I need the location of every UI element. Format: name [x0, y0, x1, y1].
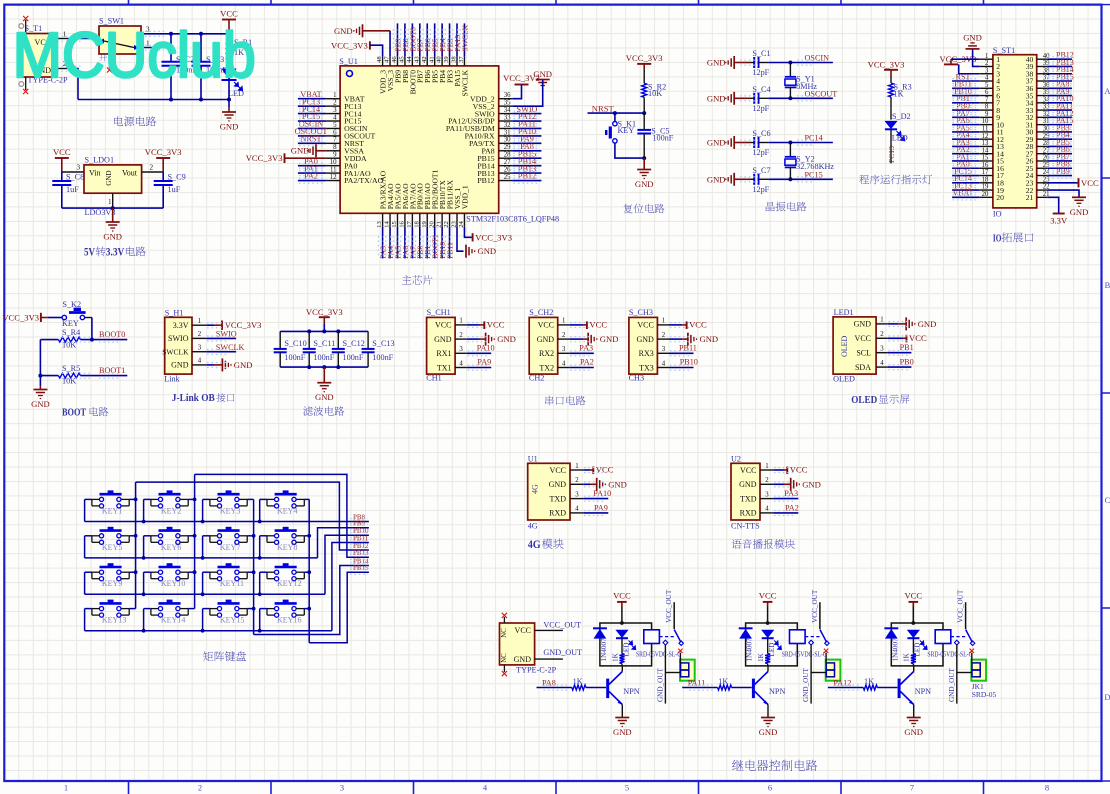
compile mask dots: [57, 29, 1072, 690]
net label OSCIN: [805, 54, 830, 63]
svg-text:1: 1: [575, 463, 578, 470]
svg-text:VCC_3V3: VCC_3V3: [2, 312, 39, 322]
LED relay 2: [761, 630, 781, 657]
H1 pins: [192, 318, 206, 365]
relay coil loop wire 3: [891, 621, 943, 666]
keypad bus wire PB12 col1: [136, 482, 369, 550]
net label BOOT0: [99, 330, 125, 339]
MCU top pins: [383, 57, 465, 66]
key KEY13: [92, 601, 129, 625]
svg-text:SWCLK: SWCLK: [162, 348, 189, 357]
filter bottom rail wire: [280, 365, 368, 369]
key KEY7: [210, 528, 247, 552]
svg-text:1uF: 1uF: [168, 185, 181, 194]
key KEY6: [151, 528, 188, 552]
svg-text:1N4007: 1N4007: [891, 638, 899, 662]
wire NRST: [588, 111, 647, 115]
svg-text:VCC_OUT: VCC_OUT: [957, 589, 965, 623]
title relay control circuit: [732, 760, 817, 771]
svg-text:30: 30: [504, 137, 511, 144]
MCUclub watermark: [13, 19, 256, 91]
wire H1 SWCLK: [206, 343, 244, 352]
svg-text:1K: 1K: [573, 677, 583, 686]
power VCC at ST1 pin 23: [1047, 178, 1099, 188]
capacitor S_C12 100nF: [332, 331, 365, 367]
svg-text:3: 3: [562, 346, 566, 353]
MCU left pin names: [344, 94, 384, 185]
svg-text:VCC_3V3: VCC_3V3: [306, 307, 343, 317]
svg-text:GND_OUT: GND_OUT: [656, 667, 664, 702]
net label NRST: [592, 103, 615, 113]
wire emitter to GND relay 1: [621, 705, 623, 718]
T1 pin stubs: [19, 16, 28, 94]
svg-text:S_R4: S_R4: [62, 328, 80, 337]
relay coil loop wire 2: [746, 621, 798, 666]
title voice module: [731, 539, 794, 549]
svg-text:B: B: [1105, 280, 1110, 290]
MCU bottom pins: [383, 213, 465, 227]
svg-text:RX3: RX3: [639, 349, 654, 358]
svg-text:GND: GND: [105, 170, 113, 185]
svg-text:VCC_3V3: VCC_3V3: [626, 53, 663, 63]
svg-text:GND: GND: [608, 479, 627, 489]
wire emitter to GND relay 2: [767, 705, 769, 718]
relay switch contact 2: [805, 630, 829, 654]
LDO ground pin wire: [108, 193, 113, 208]
svg-text:KEY: KEY: [618, 126, 635, 135]
power VCC_3V3 reset: [626, 53, 663, 70]
svg-text:4: 4: [880, 360, 884, 367]
wire GND_OUT relay 3: [948, 645, 972, 704]
net label PA8: [542, 678, 556, 687]
display LED1 OLED body: [833, 308, 876, 384]
svg-text:1: 1: [64, 783, 68, 793]
svg-text:NPN: NPN: [769, 687, 785, 696]
resistor R1: [227, 34, 253, 68]
svg-text:RXD: RXD: [549, 509, 566, 518]
U2 pins: [760, 463, 773, 513]
svg-text:32.768KHz: 32.768KHz: [796, 162, 834, 171]
svg-text:1uF: 1uF: [66, 185, 79, 194]
svg-text:6: 6: [985, 89, 989, 96]
svg-text:BOOT0: BOOT0: [99, 330, 125, 339]
CH1 pins: [455, 318, 467, 368]
svg-text:GND: GND: [533, 69, 552, 79]
svg-text:4: 4: [333, 114, 337, 121]
svg-text:26: 26: [504, 167, 511, 174]
svg-text:3.3V: 3.3V: [1050, 216, 1068, 226]
svg-text:100nF: 100nF: [652, 134, 673, 143]
svg-text:S_C13: S_C13: [372, 339, 394, 348]
GND symbol relay 3: [904, 718, 923, 738]
LDO GND symbol: [103, 208, 122, 241]
wire K1 to C5: [615, 143, 646, 160]
svg-text:1K: 1K: [864, 677, 874, 686]
svg-text:PA2: PA2: [580, 358, 594, 367]
resistor R2 10K: [642, 70, 667, 113]
wire GND_OUT relay 2: [802, 645, 826, 704]
svg-text:U2: U2: [731, 454, 741, 463]
power VCC_3V3 at MCU pin 24 VDD_1: [464, 227, 512, 243]
keypad bus wire PB11 row4: [332, 543, 369, 631]
svg-text:32: 32: [504, 122, 511, 129]
svg-text:4G: 4G: [528, 522, 538, 531]
svg-text:1K: 1K: [718, 677, 728, 686]
svg-text:IO: IO: [993, 233, 1002, 245]
svg-text:1K: 1K: [757, 652, 765, 662]
svg-text:25: 25: [504, 174, 511, 181]
svg-text:KEY12: KEY12: [277, 579, 301, 588]
MCU right pins and numbers: [499, 92, 513, 181]
crystal Y1 8MHz: [785, 63, 818, 99]
svg-text:VCC: VCC: [515, 626, 531, 635]
svg-text:GND: GND: [1070, 207, 1089, 217]
labels JK1 SRD-05: [972, 682, 997, 699]
keypad bus wire PB15 col4: [309, 572, 369, 643]
svg-text:GND: GND: [904, 727, 923, 737]
svg-text:CH2: CH2: [529, 373, 544, 382]
power GND crystal row S_C4: [707, 92, 750, 105]
frame column ticks top: [129, 0, 984, 5]
power VCC_3V3 at H1 pin 1: [206, 320, 261, 330]
svg-text:KEY15: KEY15: [220, 616, 244, 625]
wire collector relay 3: [913, 666, 915, 672]
LED D2: [884, 112, 910, 143]
diode 1N4007 relay 1: [593, 628, 608, 661]
svg-text:4: 4: [662, 360, 666, 367]
svg-text:11: 11: [330, 167, 337, 174]
power VCC_3V3 filter: [306, 307, 343, 332]
svg-text:VCC: VCC: [220, 9, 238, 19]
svg-text:S_CH3: S_CH3: [629, 308, 653, 317]
title crystal circuit: [766, 202, 807, 212]
T2 pin stubs: [502, 613, 507, 676]
svg-text:34: 34: [504, 107, 511, 114]
switch SW1: [99, 17, 141, 55]
svg-text:29: 29: [504, 144, 511, 151]
regulator LDO1: [84, 156, 142, 218]
svg-text:KEY14: KEY14: [161, 616, 185, 625]
svg-text:GND: GND: [514, 655, 532, 664]
power GND crystal row S_C6: [707, 136, 750, 149]
svg-text:3: 3: [985, 67, 989, 74]
keypad bus wire PB14 col3: [254, 566, 369, 635]
resistor R3 1K: [889, 77, 912, 120]
svg-text:SRD-05VDC-SL-C: SRD-05VDC-SL-C: [782, 649, 827, 658]
svg-text:A: A: [1104, 86, 1110, 96]
transistor NPN relay 3: [899, 672, 931, 705]
svg-text:KEY11: KEY11: [220, 579, 244, 588]
svg-text:1N4007: 1N4007: [600, 638, 608, 662]
svg-text:GND: GND: [613, 727, 632, 737]
ST1 left wires: [952, 81, 979, 197]
svg-text:KEY: KEY: [62, 319, 79, 328]
power VCC_3V3 boot: [2, 312, 47, 322]
capacitor C8: [52, 172, 84, 208]
svg-text:RXD: RXD: [740, 509, 757, 518]
svg-text:VCC: VCC: [589, 320, 607, 330]
svg-text:OLED: OLED: [840, 335, 849, 357]
svg-text:PA12: PA12: [833, 678, 851, 687]
wire K2 to BOOT0: [85, 318, 94, 342]
LDO bottom rail wire: [62, 206, 163, 210]
GND symbol relay 2: [759, 718, 778, 738]
svg-text:GND: GND: [854, 320, 872, 329]
svg-text:3: 3: [340, 783, 344, 793]
resistor 1K relay LED 3: [903, 652, 916, 665]
capacitor C5 100nF: [637, 113, 673, 158]
svg-text:GND: GND: [802, 479, 821, 489]
svg-text:KEY9: KEY9: [102, 579, 122, 588]
svg-text:4G: 4G: [531, 484, 540, 494]
svg-text:KEY1: KEY1: [102, 506, 122, 515]
capacitor S_C11 100nF: [303, 331, 336, 367]
svg-text:1: 1: [333, 92, 336, 99]
header CH3 body: [629, 308, 658, 382]
svg-text:C: C: [1105, 495, 1110, 505]
key KEY4: [267, 492, 304, 516]
svg-text:TXD: TXD: [550, 494, 567, 503]
power VCC at CH3 pin 1: [669, 320, 707, 330]
svg-text:BOOT: BOOT: [62, 408, 86, 419]
svg-text:13: 13: [982, 140, 989, 147]
title main chip: [402, 275, 433, 285]
svg-text:CH1: CH1: [426, 373, 441, 382]
label SRD-05VDC-SL-C relay 2: [782, 649, 827, 658]
capacitor C2: [162, 34, 198, 100]
wire CH1 pin 3 PA10: [467, 344, 495, 354]
svg-text:S_R5: S_R5: [62, 364, 80, 373]
svg-text:GND: GND: [220, 122, 239, 132]
svg-text:VCC: VCC: [909, 333, 927, 343]
svg-text:S_CH2: S_CH2: [529, 308, 553, 317]
key KEY1: [92, 492, 129, 516]
svg-text:3: 3: [459, 346, 463, 353]
wire T2 GND_OUT: [535, 648, 582, 659]
transistor NPN relay 2: [753, 672, 785, 705]
svg-text:VCC: VCC: [637, 321, 653, 330]
svg-text:27: 27: [504, 159, 511, 166]
power GND at MCU pin 23 VSS_1: [457, 227, 496, 258]
frame row ticks right: [1102, 178, 1110, 608]
svg-text:TYPE-C-2P: TYPE-C-2P: [516, 665, 556, 674]
svg-text:S_C12: S_C12: [343, 339, 365, 348]
keypad bus wire PB13 col2: [195, 474, 369, 557]
svg-text:1: 1: [765, 463, 768, 470]
svg-text:3: 3: [765, 491, 769, 498]
connector T1 TYPE-C-2P: [18, 24, 68, 85]
boot left rail wire: [38, 340, 42, 386]
svg-text:10K: 10K: [62, 377, 76, 386]
power GND at LED1 pin 1: [888, 317, 937, 330]
svg-text:S_C8: S_C8: [66, 173, 84, 182]
keypad net labels PB8-PB15: [353, 514, 369, 573]
wire CH3 pin 4 PB10: [669, 358, 698, 368]
svg-text:11: 11: [982, 126, 989, 133]
svg-text:100nF: 100nF: [284, 353, 305, 362]
svg-text:SRD-05VDC-SL-C: SRD-05VDC-SL-C: [636, 649, 681, 658]
svg-text:S_C1: S_C1: [752, 49, 770, 58]
svg-text:KEY6: KEY6: [161, 543, 181, 552]
SW1 bottom stub: [107, 54, 112, 73]
svg-text:KEY2: KEY2: [161, 506, 181, 515]
svg-text:19: 19: [982, 184, 989, 191]
svg-text:2: 2: [765, 477, 769, 484]
wire U1 pin 3 PA10: [583, 489, 611, 499]
power VCC at CH1 pin 1: [467, 320, 505, 330]
capacitor S_C13 100nF: [362, 331, 395, 367]
module U1 4G body: [528, 454, 570, 530]
resistor 1K relay LED 2: [757, 652, 770, 665]
svg-text:2: 2: [575, 477, 579, 484]
MCU U1 STM32F103C8T6 body: [339, 57, 559, 224]
svg-text:5: 5: [333, 122, 337, 129]
svg-text:Vout: Vout: [122, 169, 138, 178]
svg-text:3: 3: [198, 345, 202, 352]
ST1 left net labels: [953, 72, 974, 197]
svg-text:17: 17: [982, 169, 989, 176]
SW1 labels: [99, 53, 115, 61]
frame column ticks bottom: [129, 781, 984, 794]
wire collector relay 2: [767, 666, 769, 672]
capacitor S_C7 12pF: [750, 166, 771, 194]
relay coil box 1: [644, 630, 660, 644]
svg-text:1N4007: 1N4007: [746, 638, 754, 662]
svg-text:GND: GND: [31, 399, 50, 409]
svg-text:GND_OUT: GND_OUT: [543, 648, 582, 657]
svg-text:PA11: PA11: [688, 678, 706, 687]
svg-text:100nF: 100nF: [343, 353, 364, 362]
SW1 pin 3 wire top rail: [141, 26, 229, 36]
svg-text:KEY7: KEY7: [220, 543, 240, 552]
svg-text:S_H1: S_H1: [165, 308, 184, 317]
svg-text:100nF: 100nF: [313, 353, 334, 362]
svg-text:3: 3: [77, 164, 81, 172]
wire LED1 pin 3 PB1: [888, 343, 914, 353]
svg-text:12pF: 12pF: [752, 104, 769, 113]
key KEY14: [151, 601, 188, 625]
svg-text:LDO3V3: LDO3V3: [85, 208, 116, 217]
resistor 1K base relay 2: [682, 677, 752, 690]
key KEY15: [210, 601, 247, 625]
svg-text:4: 4: [765, 506, 769, 513]
svg-text:7: 7: [333, 137, 337, 144]
svg-text:GND: GND: [315, 392, 334, 402]
svg-text:9: 9: [333, 152, 337, 159]
svg-text:3.3V: 3.3V: [173, 321, 189, 330]
svg-text:2: 2: [985, 60, 989, 67]
wire crystal row PC15: [768, 177, 833, 181]
power VCC at U1 pin 1: [583, 465, 613, 475]
svg-text:VCC_OUT: VCC_OUT: [811, 589, 819, 623]
key K2: [48, 300, 86, 328]
net label PC15: [805, 170, 823, 179]
net label OSCOUT: [805, 89, 838, 98]
LED to GND wire: [227, 80, 231, 107]
wire U1 pin 4 PA9: [583, 503, 608, 513]
svg-text:10: 10: [330, 159, 337, 166]
svg-text:GND: GND: [759, 727, 778, 737]
wire CH2 pin 4 PA2: [569, 358, 594, 368]
svg-text:14: 14: [982, 147, 989, 154]
svg-text:PA3: PA3: [579, 344, 593, 353]
svg-text:VCC: VCC: [487, 320, 505, 330]
svg-text:12: 12: [330, 174, 337, 181]
svg-text:4: 4: [459, 360, 463, 367]
svg-text:VCC: VCC: [53, 147, 71, 157]
svg-text:1: 1: [985, 53, 988, 60]
MCU left pin wires: [298, 99, 326, 181]
svg-text:2: 2: [459, 332, 463, 339]
svg-text:SRD-05: SRD-05: [972, 690, 997, 699]
power GND at CH3 pin 2: [669, 333, 718, 346]
svg-text:KEY10: KEY10: [161, 579, 185, 588]
wire LED1 pin 4 PB0: [888, 358, 914, 368]
relay coil loop wire 1: [600, 621, 652, 666]
key K1: [606, 113, 636, 143]
LED1 pins: [876, 317, 888, 367]
boot GND symbol: [31, 386, 50, 410]
filter top rail wire: [280, 329, 368, 333]
resistor R4 10K: [40, 328, 127, 349]
svg-text:GND: GND: [636, 335, 654, 344]
terminal block relay 3: [971, 660, 986, 681]
svg-text:1: 1: [459, 318, 462, 325]
svg-text:21: 21: [1026, 193, 1034, 202]
svg-text:GND: GND: [707, 138, 726, 148]
svg-text:LED: LED: [892, 133, 908, 142]
label SRD-05VDC-SL-C relay 3: [927, 649, 972, 658]
svg-text:PA9: PA9: [594, 503, 608, 512]
filter GND symbol: [315, 367, 334, 402]
svg-text:8MHz: 8MHz: [796, 82, 817, 91]
svg-text:LED1: LED1: [834, 308, 854, 317]
svg-text:VCC: VCC: [740, 466, 756, 475]
terminal block relay 1: [680, 660, 695, 681]
power VCC_3V3 at MCU pin 48: [331, 40, 383, 56]
svg-text:KEY5: KEY5: [102, 543, 122, 552]
net label PA12: [833, 678, 851, 687]
terminal block relay 2: [826, 660, 841, 681]
svg-text:2: 2: [880, 331, 884, 338]
MCU top pin names and numbers: [376, 56, 469, 97]
svg-text:S_C4: S_C4: [752, 85, 770, 94]
svg-text:VCC_3V3: VCC_3V3: [868, 60, 905, 70]
svg-text:VDD_1: VDD_1: [460, 185, 469, 209]
svg-text:4: 4: [562, 360, 566, 367]
svg-text:2: 2: [562, 332, 566, 339]
wire crystal row OSCIN: [768, 61, 833, 65]
svg-text:3: 3: [880, 346, 884, 353]
key KEY10: [151, 565, 188, 589]
svg-text:OLED: OLED: [851, 394, 877, 406]
svg-text:1: 1: [662, 318, 665, 325]
wire crystal row PC14: [768, 141, 833, 145]
T1 pin 1 wire to switch: [55, 31, 97, 39]
svg-text:PB13: PB13: [353, 549, 369, 557]
power VCC_3V3 at MCU pin 9 VDDA: [246, 153, 326, 163]
key KEY3: [210, 492, 247, 516]
svg-text:PA9: PA9: [477, 358, 491, 367]
wire GND_OUT relay 1: [656, 645, 680, 704]
svg-text:RX1: RX1: [436, 349, 451, 358]
svg-text:GND: GND: [739, 480, 757, 489]
ST1 left pins: [979, 53, 993, 198]
svg-text:GND: GND: [291, 146, 310, 156]
MCU right pin names: [446, 94, 495, 185]
title IO expansion: [993, 232, 1033, 244]
wire VCC_OUT relay 1: [665, 589, 674, 629]
